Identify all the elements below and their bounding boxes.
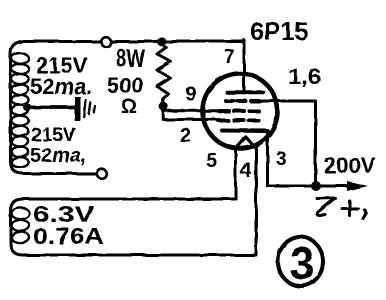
wire top B+ bus <box>20 40 244 43</box>
junction dot output node <box>311 181 321 191</box>
anode plate <box>227 90 263 94</box>
transformer heater winding turns <box>12 208 30 243</box>
svg-text:500: 500 <box>107 73 144 98</box>
svg-text:5: 5 <box>206 150 217 172</box>
svg-text:4: 4 <box>240 159 252 182</box>
junction dot resistor top <box>157 37 166 46</box>
junction dot resistor bottom <box>159 102 168 111</box>
ground chassis symbol <box>75 97 96 121</box>
arrow head output <box>347 181 368 191</box>
svg-text:8W: 8W <box>116 45 145 73</box>
svg-text:52ma.: 52ma. <box>30 74 92 99</box>
terminal on winding bottom wire <box>97 169 107 179</box>
grid row 3 <box>219 119 259 123</box>
transformer heater winding outline <box>11 199 255 255</box>
wire grid1 pin 2 <box>163 107 219 120</box>
figure number circle 3 <box>278 237 323 286</box>
wire center tap <box>28 106 75 110</box>
svg-text:9: 9 <box>185 83 196 105</box>
wire pins 1,6 to output node <box>256 101 316 186</box>
svg-text:Ω: Ω <box>121 96 137 118</box>
wire grid2 pin 9 <box>164 109 221 112</box>
svg-text:3: 3 <box>290 238 315 289</box>
svg-text:7: 7 <box>224 47 235 68</box>
svg-text:3: 3 <box>276 149 287 170</box>
junction dot center tap <box>24 104 32 112</box>
heater filament <box>236 137 257 149</box>
svg-text:6P15: 6P15 <box>250 18 308 46</box>
svg-text:1,6: 1,6 <box>288 64 321 89</box>
transformer anode winding turns <box>11 53 28 167</box>
grid row 2 <box>220 109 259 113</box>
cathode <box>222 129 268 134</box>
grid row 1 <box>226 99 259 103</box>
label Z+ output <box>317 198 366 219</box>
svg-text:200V: 200V <box>324 153 376 178</box>
wire heater pin 5 <box>234 148 237 199</box>
svg-text:0.76A: 0.76A <box>33 223 104 249</box>
svg-text:52ma,: 52ma, <box>30 145 87 167</box>
svg-text:215V: 215V <box>31 125 76 146</box>
anode lead pin 7 <box>243 40 246 91</box>
resistor R 500 ohm 8W <box>157 44 171 104</box>
wire heater pin 4 <box>255 148 258 255</box>
terminal on top wire <box>101 37 111 47</box>
transformer anode winding outline <box>11 42 99 174</box>
svg-text:2: 2 <box>180 125 191 147</box>
wire cathode pin 3 to output <box>268 131 350 186</box>
tube V1 envelope <box>203 74 278 149</box>
